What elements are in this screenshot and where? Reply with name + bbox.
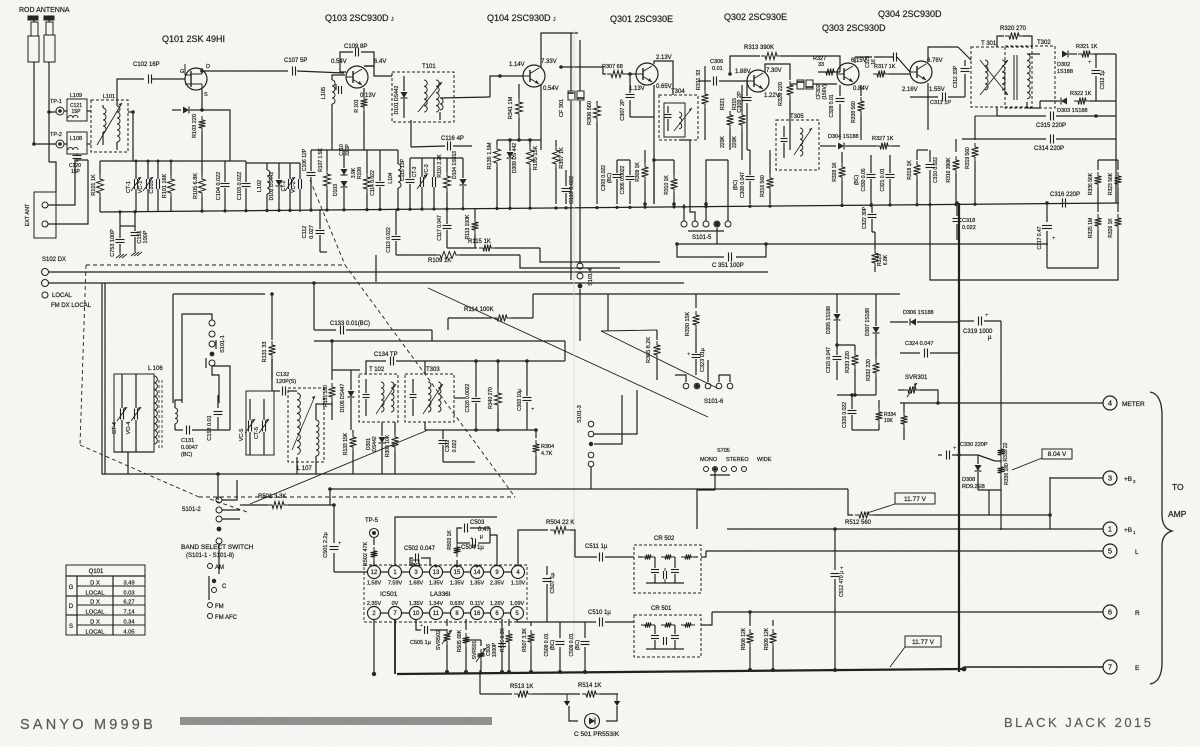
- wire rail 163: [246, 162, 300, 164]
- thick bus vertical x959: [958, 203, 960, 672]
- wire antenna2 to ext box: [49, 162, 56, 192]
- band FM AFC: [208, 614, 213, 619]
- CR501 network: [641, 623, 655, 628]
- T304 inner can: [664, 103, 685, 137]
- junction dots rails: [135, 160, 138, 163]
- wire T302 bottom: [1027, 101, 1040, 108]
- wire R103 junction to right: [202, 110, 230, 161]
- transistor Q302: [747, 70, 769, 92]
- rod antenna 1: [28, 16, 38, 20]
- T102 cap: [363, 394, 370, 396]
- band FM: [208, 603, 213, 608]
- ceramic filter CF301: [568, 91, 575, 100]
- wire 11.77V R512: [895, 493, 935, 504]
- wire T102 entry rail: [331, 341, 333, 370]
- wire rail 474 extension: [385, 473, 536, 475]
- wire L101 down: [128, 111, 133, 113]
- wire C317 loop: [1047, 248, 1098, 268]
- terminal 7 E: [964, 666, 1103, 668]
- dashed diagonal top: [310, 180, 345, 265]
- wire T301 bottom vertical: [996, 107, 998, 116]
- wires S101-1: [204, 314, 212, 320]
- wire L106 bottom: [114, 451, 154, 453]
- wire Q104 collector up: [541, 33, 578, 68]
- terminal DX: [42, 269, 49, 276]
- thick bus bottom: [397, 669, 964, 674]
- coil L109 box: [67, 99, 87, 121]
- diagonal wires: [428, 288, 708, 417]
- T303 arrow: [423, 384, 443, 414]
- CR502 network: [638, 556, 642, 558]
- wire ic top rail: [329, 489, 331, 505]
- wire q104 cluster rail: [497, 139, 541, 141]
- label 11.77V second: [905, 636, 941, 647]
- fet Q101: [185, 68, 207, 90]
- band C: [208, 576, 210, 600]
- wire pin7 thick down: [394, 619, 396, 674]
- terminal 5 L: [706, 550, 1103, 552]
- coil T101 a: [424, 80, 427, 112]
- coil L108 box: [67, 132, 87, 154]
- wire Q304 base: [899, 73, 910, 75]
- wire tuning cluster rail a: [311, 149, 398, 151]
- wire top rail right: [230, 160, 246, 162]
- table Q101 measurements: [66, 565, 145, 635]
- wires S101-5 up: [683, 204, 685, 221]
- wire mid horizontals: [533, 293, 608, 295]
- wire L107 area: [296, 390, 297, 392]
- wire left tuning top rail: [100, 160, 230, 162]
- wire CF301 vertical 1: [570, 33, 572, 91]
- coil L101 primary: [103, 108, 106, 132]
- coil L107 dashed box: [288, 388, 324, 462]
- ext ant terminal 2: [42, 221, 48, 227]
- dashed enclosure tuning gang: [86, 264, 345, 266]
- wire Q101 drain: [201, 68, 203, 71]
- wire CR502 out: [701, 551, 706, 557]
- wire S101-5 T304 link: [679, 140, 690, 150]
- wire right edge vertical: [1115, 54, 1117, 203]
- wire Q103 collector to T101: [364, 66, 392, 76]
- T305 cap: [781, 138, 788, 140]
- T305 arrow: [794, 128, 812, 155]
- coil L107 small: [175, 408, 178, 424]
- wire verticals middle: [653, 160, 655, 204]
- wire down to S101-2: [217, 474, 219, 500]
- wire bus 430: [425, 429, 536, 431]
- wire LOCAL bus: [49, 282, 684, 284]
- wire FM bus junctions: [312, 281, 316, 285]
- switch S101-5: [681, 221, 687, 227]
- terminal meter 4: [1103, 396, 1117, 410]
- wire s705 down: [697, 490, 715, 529]
- IC501 pins top row: [368, 566, 381, 579]
- ext ant terminal 1: [42, 202, 48, 208]
- wire IC pin chain top: [368, 571, 524, 573]
- wire CF301 vertical 2: [579, 40, 581, 91]
- T304 coil: [679, 112, 682, 129]
- wire Q104 to Q301: [561, 66, 585, 68]
- wire Q302 collector: [765, 64, 790, 72]
- wire pin1 rail: [395, 517, 497, 566]
- wire into T301: [958, 47, 971, 60]
- coil T101 c: [440, 98, 443, 110]
- arrow L107: [292, 396, 315, 450]
- transistor Q103: [346, 66, 368, 88]
- wire tuning cluster rail b: [410, 157, 463, 159]
- wire Q304 emitter: [927, 83, 929, 130]
- terminal 6 R: [712, 611, 1103, 613]
- T302 coil: [1027, 54, 1030, 99]
- wire Q304 collector: [928, 47, 958, 62]
- wire FM DX bus: [49, 271, 768, 273]
- coil T101 b: [436, 80, 439, 112]
- wire svr junction: [936, 401, 940, 405]
- coil L101 secondary: [117, 106, 120, 142]
- wire mid rail 244: [677, 243, 1048, 245]
- wire IC pin chain bottom: [368, 612, 522, 614]
- T303 cap: [410, 394, 417, 396]
- scan noise overlay: [0, 0, 1, 1]
- resistor R324 10K: [901, 412, 908, 428]
- junction dots on ground bus: [118, 210, 121, 213]
- T102 coils: [381, 382, 384, 412]
- lamp C501 PR553IK: [569, 706, 578, 721]
- wire band area verticals: [218, 560, 220, 574]
- T302 core lines: [1013, 55, 1015, 100]
- dashed core L106: [158, 380, 160, 448]
- transistor Q104: [523, 65, 545, 87]
- T102 arrow: [376, 384, 396, 414]
- coil L107 second: [316, 420, 319, 456]
- switch S101-1: [209, 320, 215, 326]
- box L106 outer: [104, 283, 106, 474]
- transformer T301 dashed box: [971, 47, 1032, 107]
- wire Q104 emitter: [540, 84, 542, 150]
- wire ext ant: [48, 160, 88, 205]
- transistor Q304: [910, 61, 932, 83]
- wire x964 down: [963, 667, 965, 669]
- arrow L101: [97, 103, 122, 145]
- IC501 pins bottom row: [368, 607, 381, 620]
- IC501 dashed outline: [364, 565, 527, 622]
- transformer T302 dashed box: [1005, 46, 1055, 108]
- box VC-5 CT-5: [246, 391, 274, 455]
- wire pin5 down: [516, 619, 518, 622]
- capacitor C105: [338, 86, 340, 94]
- main ground bus: [100, 203, 1119, 212]
- band AM: [208, 564, 213, 569]
- wire pin2 down: [373, 619, 375, 674]
- terminal LOCAL2: [42, 280, 49, 287]
- brace TO AMP: [1150, 392, 1172, 684]
- lamp arrows: [566, 694, 568, 701]
- wire T303 to rail: [454, 397, 465, 399]
- wire CR501 out: [701, 612, 712, 625]
- transformer T304 dashed box: [659, 95, 698, 140]
- transformer T305 dashed box: [776, 120, 819, 170]
- vertical x1001 lower: [1000, 492, 1002, 530]
- T303 coils: [428, 382, 431, 412]
- terminal 1 +B1: [727, 528, 1103, 530]
- ext ant box: [34, 192, 56, 238]
- wire T302 top: [1027, 53, 1040, 55]
- transformer T303 dashed box: [405, 374, 454, 422]
- transistor Q301: [636, 63, 658, 85]
- wires lower-left lattice: [520, 255, 620, 268]
- transformer T102 dashed box: [359, 374, 398, 422]
- label 8.04V box: [1042, 449, 1072, 459]
- rod antenna 2: [44, 16, 54, 20]
- wire L101 to C102: [117, 79, 144, 102]
- coil L106: [154, 376, 157, 444]
- crease line: [573, 30, 575, 640]
- wire to Q303: [816, 83, 837, 85]
- terminal LOCAL: [42, 292, 48, 298]
- wire +B2 path: [1049, 477, 1051, 529]
- vertical x1001 upper: [1000, 321, 1002, 445]
- wire Q101 source down: [201, 90, 203, 110]
- transformer T101 dashed box: [392, 72, 454, 122]
- T304 arrow: [674, 108, 692, 131]
- capacitor C303c 10u vert: [564, 341, 566, 361]
- gray divider bar: [180, 717, 492, 725]
- wire Q301 collector to T304: [654, 61, 673, 95]
- arrow T101: [418, 82, 442, 112]
- junction dots on bus: [445, 670, 449, 674]
- T305 coil: [800, 128, 803, 156]
- wire rail 361: [425, 360, 565, 362]
- wire antenna junction TP-2 row: [34, 143, 56, 145]
- T301 crossed coils: [985, 60, 988, 90]
- ceramic filter CF302: [797, 80, 804, 89]
- wire S101-1 to C153: [212, 366, 230, 430]
- wire right lower lattice: [930, 204, 1118, 280]
- wire antenna2 TP-1 row: [49, 111, 56, 113]
- wire mid rail 294: [608, 293, 900, 295]
- transistor Q303: [837, 63, 859, 85]
- transformer L101 dashed box: [91, 100, 128, 152]
- T304 cap: [665, 114, 672, 116]
- coil L107 main: [297, 393, 300, 454]
- terminal 3 +B2: [1103, 471, 1117, 485]
- wire long vertical x102: [101, 283, 103, 300]
- wire Q301 emitter: [653, 85, 655, 117]
- diode D100 bias: [172, 109, 181, 111]
- wire T101 to Q104: [440, 97, 490, 98]
- wire TP1 to L101: [64, 110, 67, 112]
